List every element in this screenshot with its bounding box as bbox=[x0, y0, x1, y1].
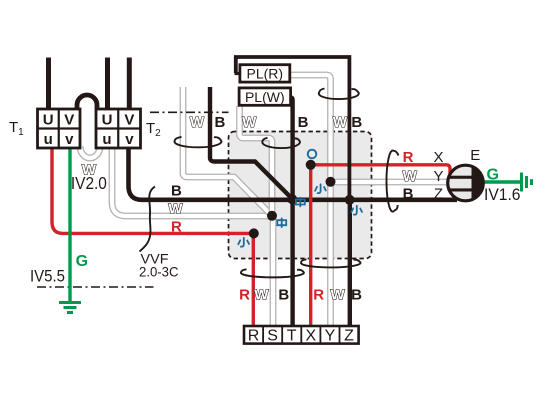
svg-text:R: R bbox=[248, 328, 260, 345]
cable clamp loop (bottom left RST) bbox=[241, 269, 304, 277]
joint sleeve dot (small, black motor Z) bbox=[345, 195, 355, 205]
sleeve mark small (kanji) at white motor joint bbox=[315, 184, 326, 193]
red wire: joint down to terminal X bbox=[309, 165, 312, 326]
svg-text:PL(R): PL(R) bbox=[247, 66, 284, 82]
svg-text:v: v bbox=[65, 131, 74, 148]
white wire: lamp W from top into box to joint bbox=[183, 87, 272, 216]
svg-text:B: B bbox=[403, 186, 414, 203]
cable clamp loop (PL(R)+frame pair) bbox=[319, 89, 359, 100]
junction box (outlet box, dashed) bbox=[229, 132, 372, 259]
white wire: joint down to terminal S bbox=[270, 216, 277, 326]
svg-text:B: B bbox=[214, 114, 225, 131]
svg-text:R: R bbox=[171, 219, 182, 236]
svg-text:T: T bbox=[287, 328, 297, 345]
svg-text:B: B bbox=[171, 183, 182, 200]
svg-text:R: R bbox=[403, 149, 414, 166]
joint sleeve dot (o-mark, red motor X) bbox=[306, 160, 316, 170]
sleeve mark small (kanji) at red VVF joint bbox=[238, 238, 249, 247]
svg-text:G: G bbox=[486, 167, 498, 184]
ground symbol left bbox=[59, 303, 81, 313]
svg-text:u: u bbox=[102, 131, 111, 148]
pilot lamp PL(R) bbox=[240, 65, 290, 82]
white wire: joint to motor terminal Y bbox=[331, 179, 449, 186]
white wire: from T2 u down, to junction box (S feed) bbox=[112, 148, 272, 216]
green wire: motor frame to earth right bbox=[484, 180, 522, 183]
svg-text:Y: Y bbox=[433, 168, 443, 185]
black wire: top frame feed of PL(R) and down right side bbox=[236, 57, 350, 200]
cable clamp loop (lamp cable pair) bbox=[174, 137, 221, 147]
cable clamp loop (bottom right XYZ) bbox=[301, 259, 361, 267]
svg-text:R: R bbox=[313, 287, 324, 304]
red wire: T1 u down and across to joint, VVF run bbox=[52, 148, 254, 233]
red wire: joint to motor terminal X bbox=[311, 165, 450, 175]
transformer terminal block T2 bbox=[96, 109, 141, 148]
svg-text:IV2.0: IV2.0 bbox=[71, 173, 107, 193]
black wire: lamp B from top into box to joint bbox=[210, 87, 292, 199]
transformer terminal block T1 bbox=[38, 109, 81, 148]
svg-text:Z: Z bbox=[344, 328, 354, 345]
svg-text:W: W bbox=[168, 201, 183, 218]
sleeve mark small (kanji) at black motor joint bbox=[351, 206, 362, 215]
svg-text:B: B bbox=[351, 287, 362, 304]
joint sleeve dot (medium, black group) bbox=[287, 194, 297, 204]
svg-text:B: B bbox=[351, 114, 362, 131]
pilot lamp PL(W) bbox=[239, 88, 291, 105]
svg-text:v: v bbox=[125, 131, 134, 148]
joint sleeve dot (medium, white group) bbox=[267, 211, 277, 221]
white wire: PL(W) white with jog inside box bbox=[240, 106, 273, 216]
svg-text:U: U bbox=[43, 112, 54, 129]
sleeve mark medium (kanji) at black joint bbox=[296, 197, 305, 207]
boundary dash-dot line lower left bbox=[37, 286, 154, 288]
terminal strip R S T X Y Z bbox=[244, 326, 359, 345]
cable clamp loop (motor cable, vertical) bbox=[386, 150, 398, 211]
svg-text:S: S bbox=[267, 328, 278, 345]
boundary dash-dot line upper bbox=[150, 111, 229, 113]
svg-text:IV5.5: IV5.5 bbox=[30, 267, 65, 286]
o-mark ring (sleeve mark) bbox=[308, 150, 317, 159]
white wire: PL(R) white down to joint bbox=[288, 75, 331, 182]
svg-text:W: W bbox=[331, 287, 346, 304]
black wire: T2 v down and across through box to motor terminal Z bbox=[129, 148, 458, 200]
white wire: jumper loop T1v-T2u below blocks bbox=[80, 146, 100, 158]
svg-text:B: B bbox=[298, 114, 309, 131]
svg-text:Y: Y bbox=[325, 328, 336, 345]
svg-text:W: W bbox=[242, 114, 257, 131]
svg-text:IV1.6: IV1.6 bbox=[484, 186, 521, 204]
joint sleeve dot (small, white motor Y) bbox=[326, 177, 336, 187]
svg-text:X: X bbox=[433, 149, 443, 166]
VVF cable pointer curve bbox=[140, 187, 156, 252]
svg-text:B: B bbox=[278, 287, 289, 304]
svg-text:W: W bbox=[190, 114, 205, 131]
svg-text:u: u bbox=[44, 131, 53, 148]
red wire: joint down to terminal R bbox=[252, 233, 255, 326]
jumper loop T1 V - T2 U (black) bbox=[77, 95, 97, 109]
svg-text:V: V bbox=[124, 112, 134, 129]
black wire: PL(W) black down through box to terminal T bbox=[289, 97, 292, 326]
joint sleeve dot (small, on red VVF) bbox=[249, 228, 259, 238]
transformer T2 primary leads (black) bbox=[105, 58, 110, 110]
svg-text:PL(W): PL(W) bbox=[245, 89, 285, 105]
svg-text:W: W bbox=[333, 114, 348, 131]
black wire: joint down to terminal Z bbox=[348, 200, 352, 326]
svg-text:W: W bbox=[403, 168, 418, 185]
svg-text:Z: Z bbox=[434, 186, 443, 203]
svg-text:W: W bbox=[254, 287, 269, 304]
white wire: joint down to terminal Y bbox=[327, 182, 334, 326]
ground symbol right bbox=[522, 173, 532, 192]
motor M (3-phase load) bbox=[448, 165, 484, 201]
svg-text:V: V bbox=[64, 112, 74, 129]
green wire: T1 v down to earth bbox=[68, 148, 71, 302]
svg-text:X: X bbox=[305, 328, 316, 345]
svg-text:2.0-3C: 2.0-3C bbox=[139, 263, 179, 279]
svg-text:U: U bbox=[102, 112, 113, 129]
svg-text:R: R bbox=[239, 287, 250, 304]
sleeve mark medium (kanji) at white joint bbox=[277, 218, 286, 228]
cable clamp loop (PL(W) pair) bbox=[262, 138, 300, 148]
transformer T1 primary lead (black) bbox=[46, 58, 51, 110]
svg-text:E: E bbox=[470, 147, 480, 164]
svg-text:G: G bbox=[76, 253, 88, 270]
